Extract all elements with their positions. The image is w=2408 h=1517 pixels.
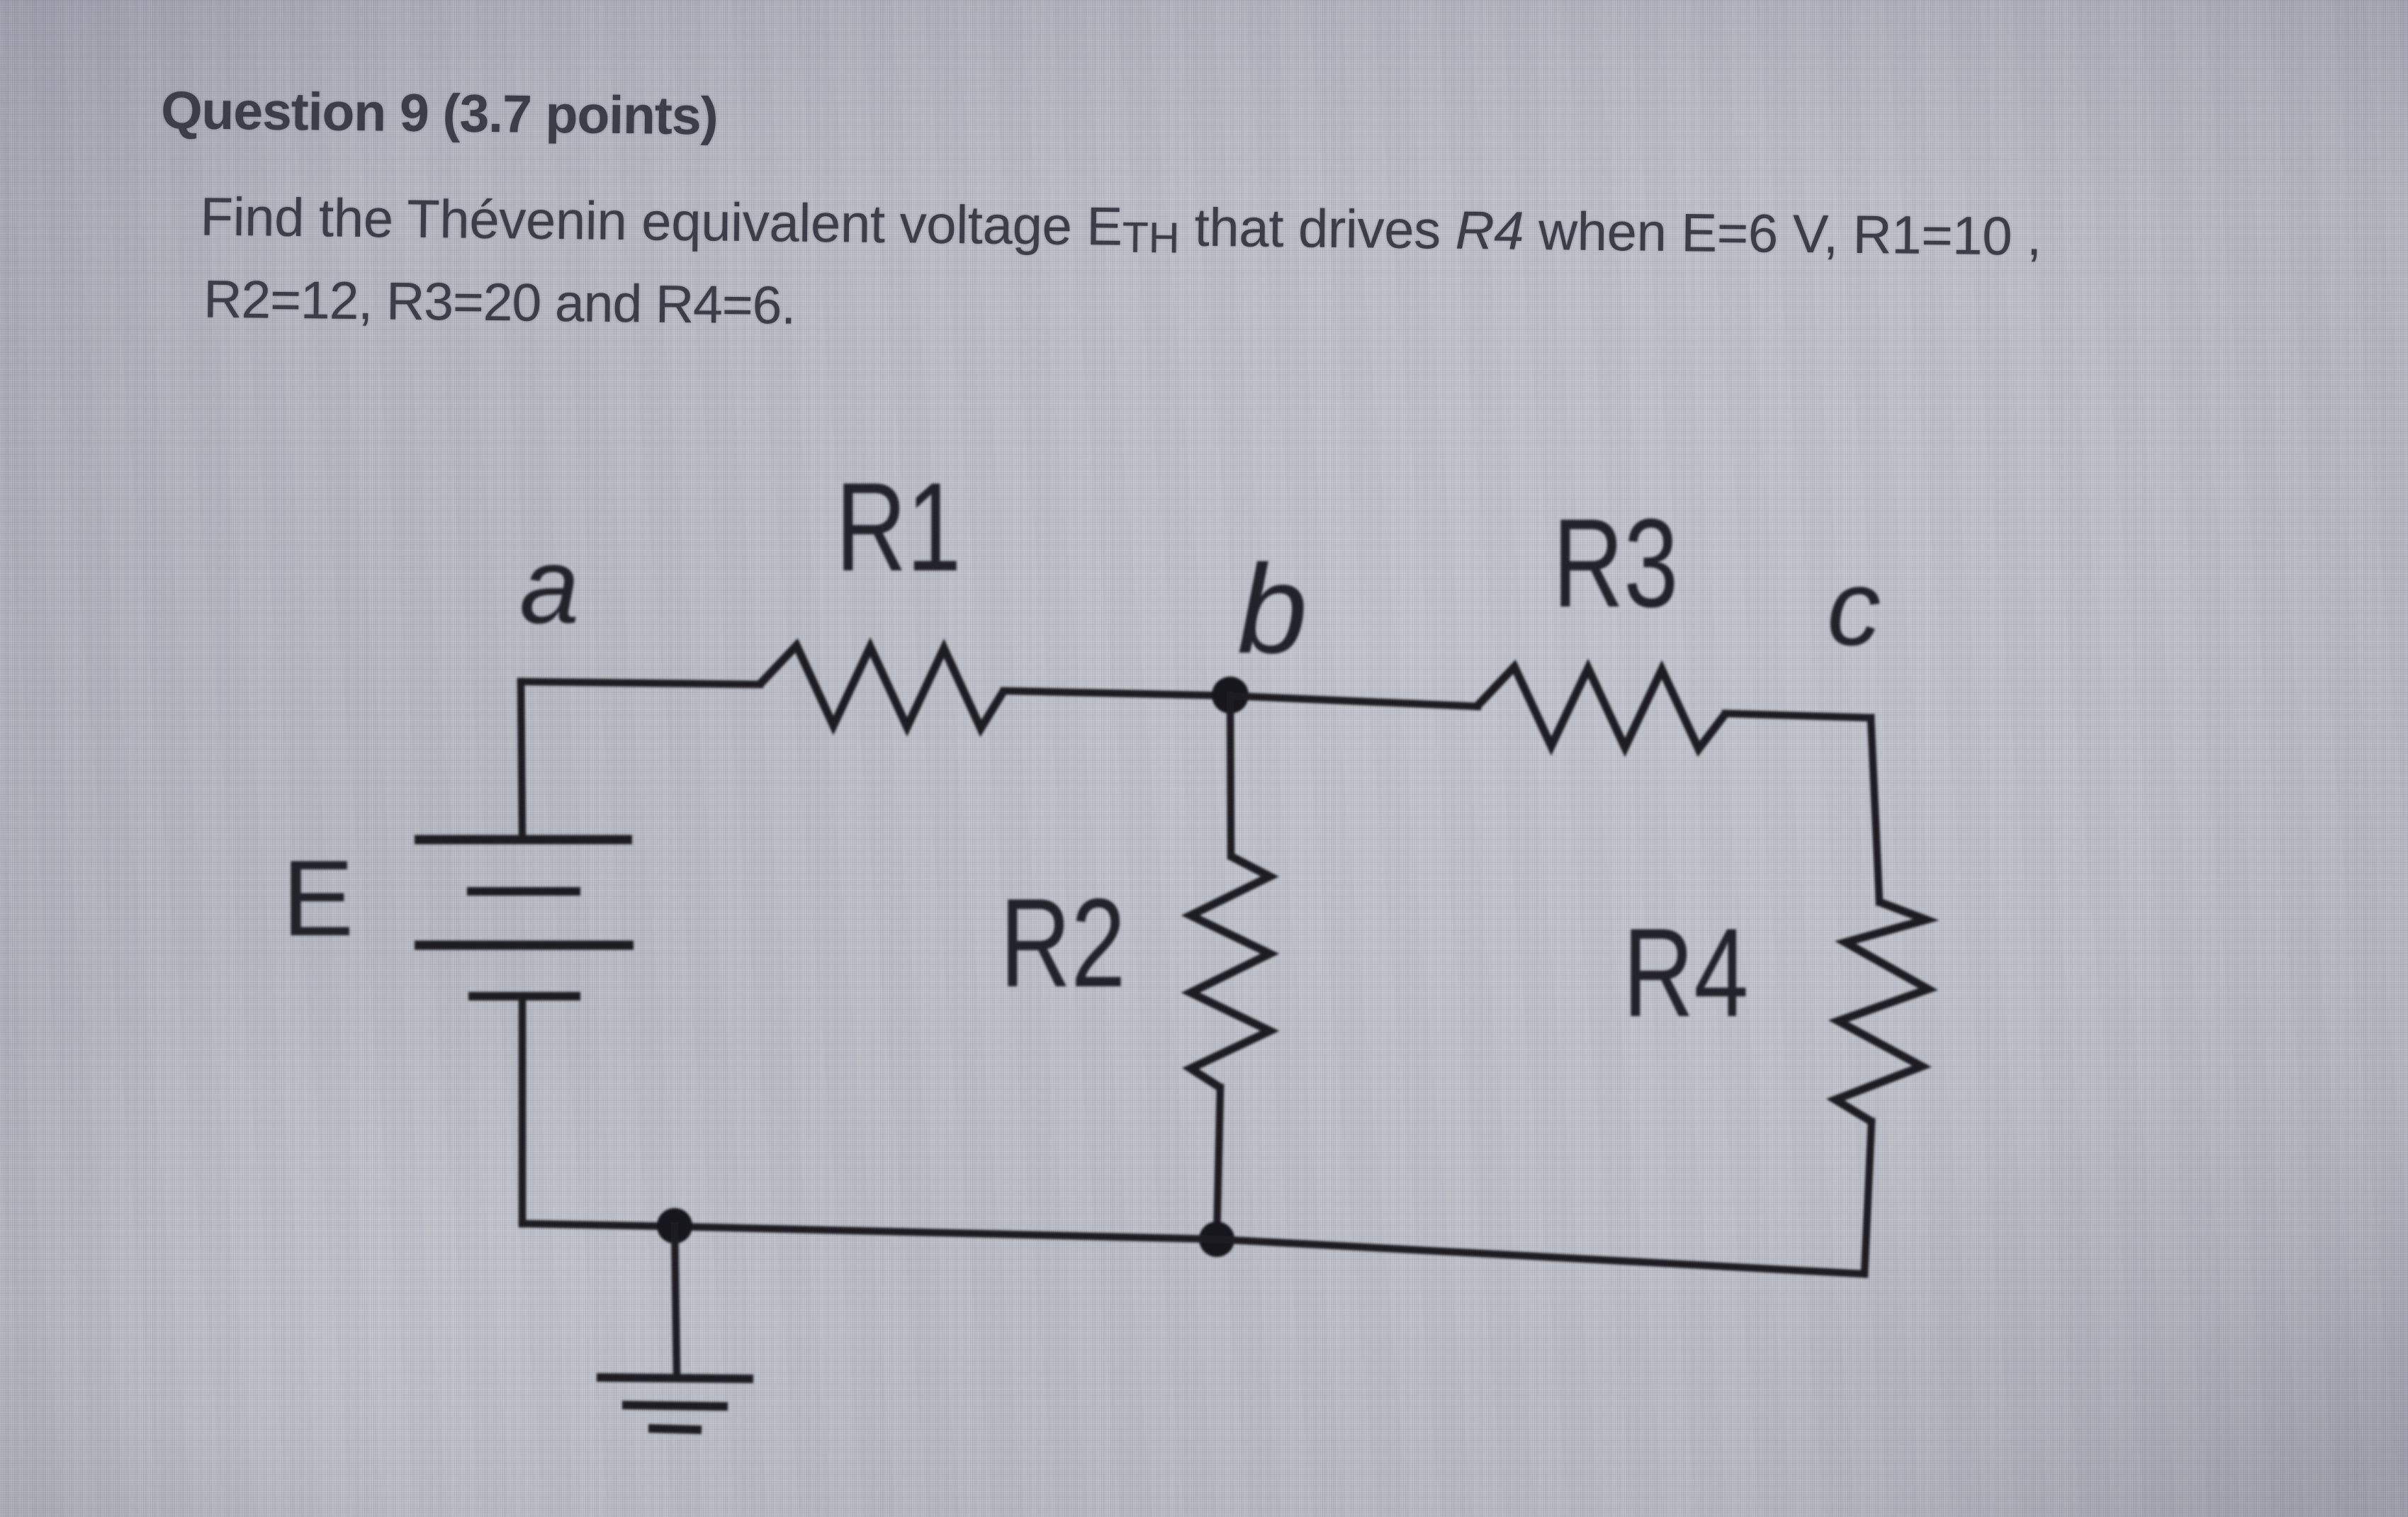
resistor R3 bbox=[1478, 667, 1726, 749]
wire node a top-left corner to battery positive bbox=[521, 682, 522, 836]
resistor R2 bbox=[1191, 856, 1270, 1088]
svg-text:R3: R3 bbox=[1553, 492, 1678, 633]
wire node c down to R4 bbox=[1871, 718, 1879, 902]
node b junction dot bbox=[1212, 677, 1249, 714]
svg-text:b: b bbox=[1237, 538, 1307, 679]
wire R2 bottom to bottom rail bbox=[1217, 1088, 1220, 1239]
svg-text:R2: R2 bbox=[1000, 872, 1125, 1013]
svg-text:R1: R1 bbox=[836, 456, 961, 597]
svg-text:c: c bbox=[1827, 548, 1881, 668]
svg-text:E: E bbox=[282, 838, 354, 959]
ground bbox=[597, 1226, 753, 1430]
svg-text:R4: R4 bbox=[1623, 902, 1748, 1042]
wire R4 bottom to bottom-right corner bbox=[1864, 1122, 1872, 1274]
resistor R4 bbox=[1835, 902, 1928, 1122]
resistor R1 bbox=[760, 645, 1004, 728]
wire R1 to node b bbox=[1004, 691, 1230, 696]
wire bottom rail bbox=[522, 1224, 1864, 1274]
wire node b to R3 bbox=[1230, 696, 1478, 706]
wire node b down to R2 bbox=[1230, 695, 1231, 856]
junction dot R2-bottom bbox=[1199, 1222, 1234, 1257]
ground junction dot bbox=[657, 1208, 692, 1244]
wire node a to R1 bbox=[521, 682, 760, 684]
battery E bbox=[415, 840, 634, 996]
wire R3 to node c corner bbox=[1726, 714, 1871, 718]
wire battery negative to bottom-left corner bbox=[519, 999, 527, 1224]
svg-text:a: a bbox=[519, 526, 580, 646]
